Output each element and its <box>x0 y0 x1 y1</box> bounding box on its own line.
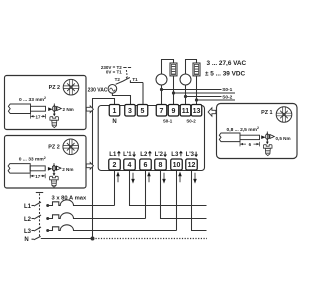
svg-text:7: 7 <box>160 108 164 115</box>
svg-text:L'3: L'3 <box>186 152 195 158</box>
svg-text:0,8 ... 2,5 mm2: 0,8 ... 2,5 mm2 <box>227 126 259 133</box>
svg-text:3: 3 <box>128 108 132 115</box>
svg-text:8: 8 <box>159 162 163 169</box>
svg-text:2 Nm: 2 Nm <box>63 107 74 112</box>
svg-text:0V = T1: 0V = T1 <box>106 70 122 75</box>
svg-text:12: 12 <box>188 162 196 169</box>
svg-text:13: 13 <box>193 108 201 115</box>
svg-text:N: N <box>112 119 116 125</box>
svg-text:N: N <box>24 237 28 243</box>
svg-text:9: 9 <box>172 108 176 115</box>
svg-text:L1: L1 <box>24 204 32 210</box>
svg-text:S0-2: S0-2 <box>186 119 196 124</box>
svg-text:L2: L2 <box>24 217 32 223</box>
svg-text:0 ... 33 mm2: 0 ... 33 mm2 <box>19 96 46 103</box>
svg-text:PZ 1: PZ 1 <box>261 110 272 116</box>
svg-text:L2: L2 <box>140 152 148 158</box>
svg-text:L'1: L'1 <box>123 152 132 158</box>
svg-text:PZ 2: PZ 2 <box>49 85 60 91</box>
svg-text:230 VAC: 230 VAC <box>88 88 108 94</box>
svg-text:L3: L3 <box>171 152 179 158</box>
svg-text:S0-1: S0-1 <box>222 87 232 93</box>
svg-text:T2: T2 <box>115 77 121 82</box>
svg-text:S0-1: S0-1 <box>163 119 173 124</box>
svg-text:17: 17 <box>36 114 41 119</box>
svg-text:6: 6 <box>144 162 148 169</box>
svg-text:L3: L3 <box>24 229 32 235</box>
svg-text:L1: L1 <box>109 152 117 158</box>
svg-text:3 ... 27,6 VAC: 3 ... 27,6 VAC <box>207 60 247 67</box>
svg-text:3 x 80 A max: 3 x 80 A max <box>52 196 87 202</box>
svg-text:2: 2 <box>113 162 117 169</box>
svg-text:10: 10 <box>173 162 181 169</box>
svg-text:± 5 ... 39 VDC: ± 5 ... 39 VDC <box>205 70 245 77</box>
svg-text:0,5 Nm: 0,5 Nm <box>276 136 291 141</box>
svg-text:5: 5 <box>141 108 145 115</box>
svg-text:S0-2: S0-2 <box>222 94 232 100</box>
svg-text:4: 4 <box>128 162 132 169</box>
svg-text:L'2: L'2 <box>155 152 164 158</box>
svg-text:T1: T1 <box>132 77 138 82</box>
svg-text:1: 1 <box>113 108 117 115</box>
svg-text:11: 11 <box>182 108 190 115</box>
